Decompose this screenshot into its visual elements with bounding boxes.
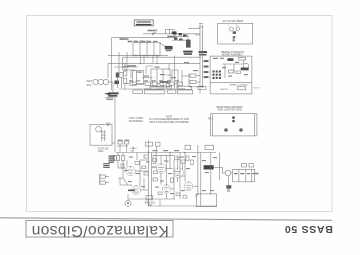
schematic sheet border frame [27, 16, 333, 212]
node label box B [205, 145, 214, 149]
standby switch sub-box [133, 69, 171, 87]
svg-text:WITH A VACUUM TUBE VOLTMETER: WITH A VACUUM TUBE VOLTMETER [149, 121, 189, 124]
cathode bar [128, 190, 135, 192]
transformer T1 lead stubs [136, 41, 157, 64]
input coupling wires [108, 63, 115, 152]
outlet contact 1 [229, 27, 233, 31]
feedback label [98, 148, 110, 153]
board divider [210, 82, 252, 84]
title block divider line [0, 218, 332, 221]
grid stopper resistors row [125, 82, 182, 85]
lower cluster value speckle [118, 140, 217, 195]
svg-text:INST: INST [87, 80, 93, 83]
heater wiring [123, 63, 189, 88]
B+ bus to preamp [116, 152, 216, 154]
svg-text:BASS 50: BASS 50 [284, 223, 333, 235]
svg-text:DEPTH: DEPTH [220, 89, 228, 91]
speaker wires [222, 167, 233, 173]
svg-text:Kalamazoo/Gibson: Kalamazoo/Gibson [31, 222, 168, 239]
board bottom text [220, 84, 249, 91]
output transformer wiring [193, 145, 222, 207]
AC outlet box [218, 23, 253, 44]
junction dots [124, 57, 200, 154]
svg-text:AC OUTLET REAR: AC OUTLET REAR [223, 20, 244, 23]
bias bus [150, 153, 152, 200]
board component labels [213, 58, 248, 77]
rectifier diodes D1-D4 [172, 32, 188, 40]
lower cluster capacitors [114, 156, 194, 199]
output stage box [197, 194, 217, 207]
svg-text:TO V2: TO V2 [253, 88, 260, 90]
B+ bus wires [108, 24, 204, 94]
svg-text:ALL VOLTAGES MEASURED TO GND: ALL VOLTAGES MEASURED TO GND [149, 118, 189, 121]
power switch S1 [143, 29, 176, 35]
coupling caps row [118, 141, 138, 152]
output tube V6 [184, 182, 193, 191]
input grid resistor block (dark label) [106, 92, 119, 100]
tremolo oscillator parts [100, 174, 109, 185]
input jack J3 [103, 79, 108, 84]
svg-text:VOLT. CHART: VOLT. CHART [129, 117, 144, 120]
fuse holder dot 1 [232, 116, 235, 119]
notes block [103, 163, 110, 168]
wire [112, 142, 115, 144]
B+ label (dark text) [183, 51, 207, 56]
drawing number label box [134, 20, 153, 26]
board resistor R20 [239, 57, 246, 60]
node label box C [146, 142, 153, 146]
table units label [255, 173, 259, 175]
node label box D [155, 142, 160, 146]
bias pot [125, 199, 131, 206]
trim pot P3 [198, 86, 206, 89]
preamp tube V2 [132, 186, 141, 195]
pilot lamp wires [165, 30, 174, 34]
choke L1 and dropping resistors [189, 73, 204, 86]
svg-text:SPEED CONTROL: SPEED CONTROL [230, 84, 250, 86]
feedback network box [90, 124, 112, 145]
speaker jack strip [233, 164, 255, 182]
board components middle [222, 60, 249, 78]
bottom bias network [145, 196, 155, 207]
fuse F1 [167, 31, 177, 38]
filter capacitor C1 (can) [186, 34, 191, 48]
control panel boxes row [133, 90, 193, 94]
preamp tube V1 [126, 166, 136, 176]
board bottom pot [238, 87, 246, 90]
AC line wires [112, 38, 177, 75]
svg-text:JACK LOCATION VIEW: JACK LOCATION VIEW [217, 108, 242, 111]
ground [107, 123, 110, 126]
rear panel box [211, 114, 257, 136]
input jack J1 [93, 79, 98, 84]
svg-text:ACC: ACC [87, 84, 92, 87]
volume potentiometer P1 [150, 86, 164, 89]
node label box A [185, 145, 191, 149]
stage caption 1 [129, 117, 144, 123]
ground lug [226, 176, 231, 192]
speaker jack 2 [239, 128, 243, 132]
tremolo board caption [221, 52, 245, 57]
shielded cable arrow [104, 93, 110, 96]
coupling transformer core [101, 130, 106, 141]
lower cluster extra wires [117, 144, 217, 206]
outlet contact 2 [236, 27, 239, 30]
terminal strip grid [213, 71, 221, 79]
svg-text:DC READING: DC READING [129, 120, 144, 123]
oscillator tube V7 [243, 63, 248, 68]
note caption [149, 117, 189, 124]
title box Kalamazoo/Gibson [26, 221, 173, 238]
outlet contact labels [229, 25, 239, 27]
board cap C10 [227, 58, 233, 61]
output transformer T2 (dark) [204, 165, 214, 169]
speaker SP1 [225, 170, 231, 176]
heater wiring left cluster [108, 52, 180, 89]
svg-text:JACK: JACK [98, 150, 104, 153]
grid bias text block [109, 156, 116, 163]
input jack labels [87, 80, 93, 87]
dropping resistor chain [123, 63, 126, 89]
power tube V4 [162, 185, 170, 193]
power transformer T1 primary taps [128, 41, 160, 55]
preamp wiring [128, 153, 185, 200]
outlet ground pin [233, 31, 236, 41]
cathode resistors [144, 155, 185, 182]
supply node labels stack [204, 60, 209, 78]
power tube V5 [174, 168, 184, 178]
phase inverter tube V3 [156, 164, 166, 174]
fuse holder dot 2 [232, 120, 235, 123]
bass potentiometer P4 [166, 86, 172, 89]
input jack J2 [98, 79, 103, 84]
fuse holder label (dark) [160, 43, 173, 51]
speaker jack 1 [224, 128, 228, 132]
tremolo board box [210, 56, 252, 94]
plate resistors left [117, 153, 129, 186]
screen bus [147, 140, 149, 206]
value labels speckle (illegible) [120, 30, 199, 90]
tone potentiometer P2 [177, 86, 192, 89]
neon lamp NE1 [96, 126, 102, 132]
rear panel caption [217, 106, 243, 112]
